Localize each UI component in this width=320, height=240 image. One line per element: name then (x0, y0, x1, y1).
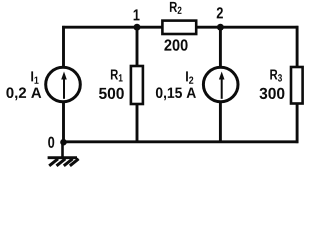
ground symbol (48, 143, 79, 166)
label R1 (111, 70, 123, 82)
wire top bus (node 1 / node 2 rail) (62, 26, 298, 29)
label I1 (31, 71, 38, 83)
current source I2 (circle with up arrow) (203, 67, 238, 102)
value 200 (164, 39, 187, 50)
wire left vertical branch upper (top corner to I1 top) (62, 26, 65, 67)
wire I2 branch lower (I2 bottom to bottom bus) (219, 102, 222, 142)
resistor R2 (horizontal box) (162, 21, 196, 34)
wire right vertical branch (through R3) (296, 26, 299, 143)
current source I1 (circle with up arrow) (46, 67, 81, 102)
node 1 junction dot (134, 24, 141, 31)
label R3 (270, 70, 282, 82)
label I2 (186, 71, 193, 83)
resistor R3 (vertical box) (291, 67, 303, 104)
value 0,15 A (156, 87, 196, 100)
node 1 label (134, 9, 140, 20)
value 300 (260, 88, 285, 99)
value 0,2 A (6, 87, 41, 100)
wire I2 branch upper (node 2 down to I2 top) (219, 27, 222, 67)
wire left vertical branch lower (I1 bottom to node 0) (62, 102, 65, 143)
label R2 (170, 2, 182, 14)
value 500 (99, 88, 124, 99)
wire R1 branch lower (R1 down to bottom bus) (136, 103, 139, 142)
wire R1 branch upper (node 1 down to R1) (136, 27, 139, 67)
node 0 junction dot (60, 139, 67, 146)
node 2 label (217, 7, 223, 18)
wire bottom bus from node 0 to bottom right corner (62, 140, 298, 143)
resistor R1 (vertical box) (131, 66, 143, 104)
node 0 label (48, 137, 54, 148)
node 2 junction dot (217, 24, 224, 31)
